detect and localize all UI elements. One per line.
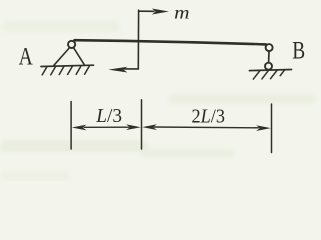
dimension arrow 2L/3 (142, 124, 271, 131)
svg-text:A: A (19, 42, 34, 70)
svg-text:m: m (174, 4, 189, 23)
pin support at A : hinge circle (68, 41, 75, 48)
dimension arrow L/3 (72, 124, 141, 130)
roller support at B : ground line (249, 70, 291, 71)
pin support at A : ground line (41, 65, 94, 66)
roller support at B : hatching (253, 70, 284, 79)
moment couple vertical line (137, 10, 139, 69)
svg-text:L/3: L/3 (95, 104, 122, 127)
beam (75, 40, 267, 44)
moment couple bottom arrow (leftwards) (108, 67, 138, 73)
svg-text:2L/3: 2L/3 (192, 106, 225, 128)
faint bleed-through smudges (0, 20, 316, 181)
dimension tick at B (271, 104, 273, 153)
roller support at B : link bar (268, 51, 270, 63)
roller support at B : upper hinge circle (266, 44, 273, 51)
dimension tick under couple (141, 100, 143, 149)
pin support at A : hatching (42, 66, 89, 75)
dimension tick at A (70, 102, 72, 150)
moment couple top arrow (rightwards) (139, 9, 169, 15)
paper background (0, 0, 321, 181)
roller support at B : lower hinge circle (265, 63, 272, 70)
pin support at A : triangle legs (54, 47, 85, 65)
svg-text:B: B (292, 36, 305, 64)
